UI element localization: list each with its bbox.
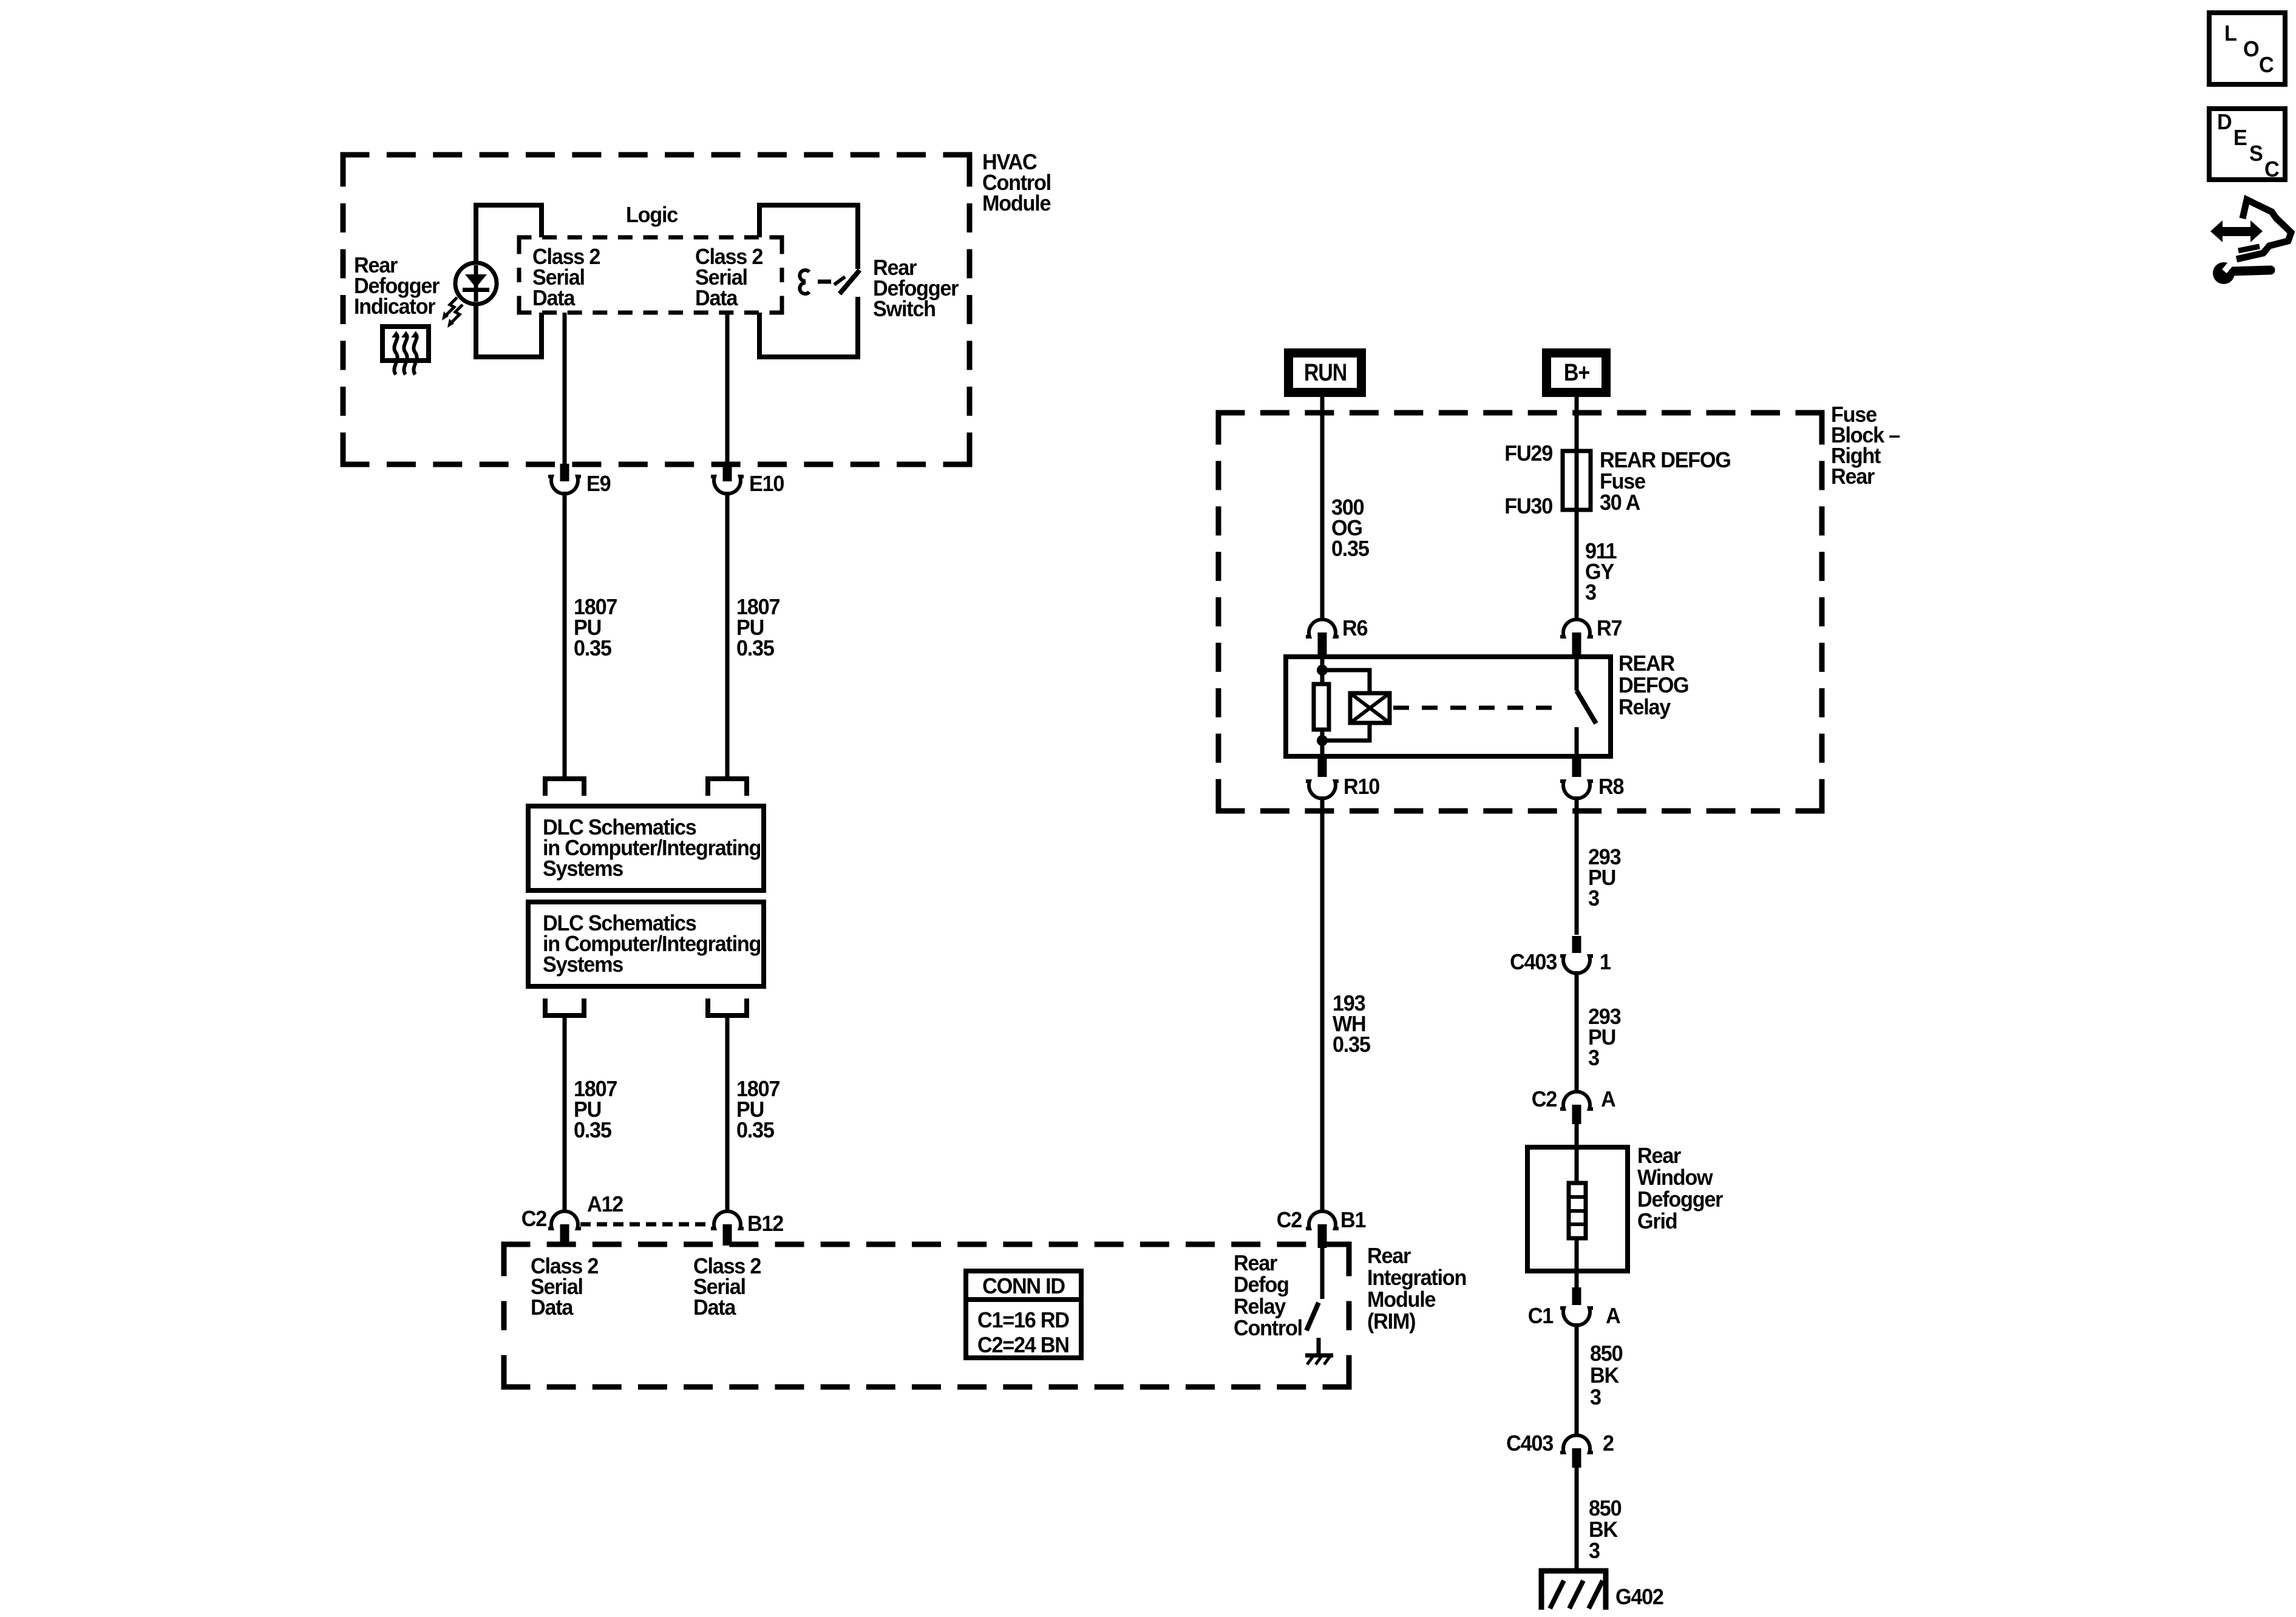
svg-text:Module: Module xyxy=(1367,1287,1436,1312)
svg-text:C: C xyxy=(2264,157,2279,181)
svg-text:R10: R10 xyxy=(1343,775,1380,799)
svg-text:R8: R8 xyxy=(1598,775,1624,799)
svg-text:850: 850 xyxy=(1590,1341,1623,1366)
svg-text:Rear: Rear xyxy=(1637,1144,1682,1168)
svg-text:A: A xyxy=(1606,1304,1620,1328)
svg-text:1: 1 xyxy=(1600,950,1611,974)
svg-text:Rear: Rear xyxy=(1367,1244,1411,1268)
svg-text:O: O xyxy=(2243,37,2258,61)
svg-text:3: 3 xyxy=(1585,580,1597,605)
svg-text:0.35: 0.35 xyxy=(574,636,611,660)
svg-text:E: E xyxy=(2233,126,2247,150)
svg-text:850: 850 xyxy=(1589,1496,1622,1520)
svg-text:0.35: 0.35 xyxy=(1331,537,1369,561)
svg-text:Fuse: Fuse xyxy=(1600,469,1646,493)
svg-text:30 A: 30 A xyxy=(1600,490,1640,515)
svg-text:A: A xyxy=(1601,1087,1615,1111)
svg-text:C1=16 RD: C1=16 RD xyxy=(977,1308,1069,1332)
svg-text:Window: Window xyxy=(1637,1165,1713,1190)
svg-text:Defog: Defog xyxy=(1234,1273,1289,1297)
svg-text:DEFOG: DEFOG xyxy=(1618,673,1688,697)
svg-text:Data: Data xyxy=(531,1295,574,1320)
svg-text:Data: Data xyxy=(532,286,576,310)
svg-text:D: D xyxy=(2217,110,2231,134)
svg-text:E10: E10 xyxy=(749,472,784,496)
svg-text:C2=24 BN: C2=24 BN xyxy=(977,1333,1069,1357)
svg-text:CONN ID: CONN ID xyxy=(982,1274,1065,1298)
svg-text:FU30: FU30 xyxy=(1504,494,1552,518)
svg-text:3: 3 xyxy=(1590,1385,1601,1409)
svg-text:3: 3 xyxy=(1589,1539,1600,1563)
svg-text:Data: Data xyxy=(693,1295,736,1320)
svg-text:Integration: Integration xyxy=(1367,1266,1466,1290)
svg-text:C2: C2 xyxy=(1277,1208,1302,1232)
svg-text:Systems: Systems xyxy=(543,856,623,881)
svg-text:3: 3 xyxy=(1588,1046,1600,1070)
svg-text:Relay: Relay xyxy=(1618,695,1671,719)
svg-text:Control: Control xyxy=(1234,1316,1302,1340)
svg-text:Switch: Switch xyxy=(873,297,936,321)
svg-text:C1: C1 xyxy=(1528,1304,1554,1328)
svg-text:R6: R6 xyxy=(1342,616,1368,640)
svg-text:BK: BK xyxy=(1590,1363,1620,1388)
svg-text:C2: C2 xyxy=(1532,1087,1557,1111)
svg-text:Relay: Relay xyxy=(1234,1295,1286,1319)
svg-text:REAR: REAR xyxy=(1618,651,1675,676)
svg-text:3: 3 xyxy=(1588,886,1600,910)
svg-text:Rear: Rear xyxy=(1831,464,1875,489)
svg-text:(RIM): (RIM) xyxy=(1367,1309,1415,1334)
svg-text:Logic: Logic xyxy=(626,203,678,227)
svg-text:C403: C403 xyxy=(1506,1431,1554,1456)
svg-text:R7: R7 xyxy=(1597,616,1622,640)
svg-text:Rear: Rear xyxy=(1234,1251,1278,1275)
svg-text:C: C xyxy=(2259,53,2274,77)
svg-text:B1: B1 xyxy=(1340,1208,1366,1232)
svg-text:S: S xyxy=(2249,141,2263,166)
svg-text:0.35: 0.35 xyxy=(1333,1032,1370,1057)
svg-text:A12: A12 xyxy=(587,1192,623,1216)
svg-text:2: 2 xyxy=(1603,1431,1614,1456)
svg-text:Data: Data xyxy=(695,286,738,310)
svg-text:Defogger: Defogger xyxy=(1637,1187,1724,1212)
svg-text:L: L xyxy=(2224,21,2237,46)
svg-text:C2: C2 xyxy=(521,1207,547,1231)
svg-text:Grid: Grid xyxy=(1637,1209,1677,1233)
svg-text:RUN: RUN xyxy=(1304,358,1347,385)
svg-text:FU29: FU29 xyxy=(1504,441,1552,466)
svg-text:REAR DEFOG: REAR DEFOG xyxy=(1600,448,1731,472)
svg-text:Indicator: Indicator xyxy=(354,294,436,319)
svg-text:B+: B+ xyxy=(1564,358,1590,385)
svg-text:C403: C403 xyxy=(1510,950,1557,974)
svg-text:B12: B12 xyxy=(747,1212,784,1236)
svg-text:Module: Module xyxy=(982,191,1051,215)
svg-text:BK: BK xyxy=(1589,1517,1618,1542)
svg-text:E9: E9 xyxy=(586,472,611,496)
svg-text:0.35: 0.35 xyxy=(574,1118,611,1142)
svg-text:0.35: 0.35 xyxy=(736,1118,774,1142)
svg-text:G402: G402 xyxy=(1615,1585,1663,1609)
svg-text:Systems: Systems xyxy=(543,952,623,977)
svg-text:0.35: 0.35 xyxy=(736,636,774,660)
